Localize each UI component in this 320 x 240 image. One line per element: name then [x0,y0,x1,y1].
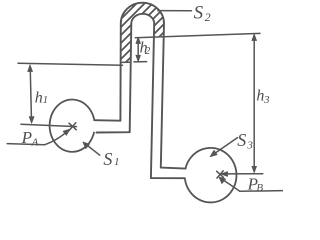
PB underline [240,190,283,193]
top liquid-level reference line [135,33,260,37]
svg-text:2: 2 [145,45,151,57]
svg-text:1: 1 [43,94,49,106]
hatch band bottom tick [121,61,131,63]
hatching of sectioned tube S2 [54,0,204,70]
svg-text:1: 1 [114,156,120,168]
center mark X of S1 [69,123,76,130]
label S1 [103,149,119,169]
cylinder S3 circle [185,148,237,203]
svg-text:3: 3 [246,140,253,152]
svg-text:B: B [256,182,263,194]
svg-text:3: 3 [263,94,270,106]
label S2 [194,2,211,24]
dimension h3 arrow [252,34,257,173]
left liquid-level reference line [18,63,123,65]
PB leader arrow to center [219,177,240,192]
svg-text:h: h [35,89,43,106]
label h2 [140,40,151,57]
S1 leader arrow [83,142,100,155]
svg-text:S: S [103,149,112,169]
svg-text:2: 2 [205,10,211,24]
svg-text:S: S [237,130,246,150]
tube inner wall [97,14,185,178]
dimension h1 arrow [28,65,34,124]
S3 leader arrow [210,138,238,157]
label S3 [237,130,253,152]
PA pressure line [21,124,77,126]
cylinder S1 circle [50,99,94,151]
PA underline [7,144,44,145]
label h1 [35,89,48,106]
svg-text:A: A [31,136,39,148]
dimension h2 arrow [134,37,147,62]
label PB [247,175,264,195]
label PA [21,128,39,148]
PA leader arrow to center [45,129,71,145]
PB pressure line with arrow at center [221,172,263,177]
svg-text:P: P [21,128,32,147]
center mark X of S3 [217,171,224,178]
svg-text:S: S [194,2,204,23]
label h3 [256,87,270,106]
tube outer wall (S1 pipe, left riser, dome outer arch, right riser, S3 pipe) [94,3,185,169]
S2 leader line [158,10,192,12]
